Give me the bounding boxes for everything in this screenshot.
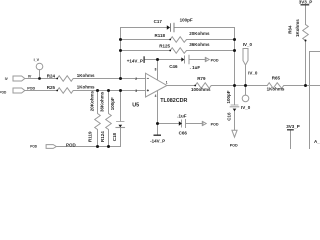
svg-text:R25: R25: [47, 85, 56, 90]
junction node C18 top: [119, 89, 122, 92]
wire IV line with resistor R24: [25, 76, 146, 82]
resistor R64 column: [303, 25, 309, 86]
pin dot R118: [169, 39, 171, 41]
wire +14V_P to pin8: [145, 60, 158, 81]
-14V_P stem: [157, 124, 159, 136]
junction node left bus R118: [119, 38, 122, 41]
svg-text:36Kohms: 36Kohms: [100, 91, 105, 112]
resistor R79: [195, 83, 267, 89]
svg-text:3: 3: [135, 89, 137, 93]
svg-text:R124: R124: [100, 131, 105, 142]
junction node +14V_P rail: [156, 58, 159, 61]
POD tag arrow (C66): [201, 121, 203, 125]
junction node right bus R118: [233, 38, 236, 41]
junction node left bus R125: [119, 49, 122, 52]
wire op-amp output: [167, 85, 195, 87]
wire right feedback bus: [234, 28, 236, 86]
svg-text:TL082CDR: TL082CDR: [160, 98, 187, 104]
resistor R119 column: [95, 91, 101, 147]
svg-text:POD: POD: [0, 91, 7, 95]
3V3_P bottom stem: [290, 131, 292, 150]
capacitor C46 wire and plates: [158, 59, 182, 61]
svg-text:R125: R125: [159, 44, 170, 49]
capacitor C16 polarity arrow: [233, 109, 237, 112]
junction node R124 top: [107, 89, 110, 92]
junction node right bus R125: [233, 49, 236, 52]
svg-text:. 1uF: . 1uF: [190, 65, 201, 70]
svg-text:C16: C16: [227, 112, 232, 121]
svg-text:1Kohms: 1Kohms: [267, 87, 285, 92]
junction node -14V_P rail: [156, 122, 159, 125]
svg-text:A_I: A_I: [314, 139, 320, 144]
POD bottom tag pentagon: [46, 145, 56, 149]
svg-text:IV_0: IV_0: [248, 70, 258, 75]
resistor R65: [267, 83, 320, 89]
svg-text:100pF: 100pF: [226, 90, 231, 103]
svg-text:R65: R65: [272, 75, 281, 80]
svg-text:POD: POD: [211, 122, 219, 126]
block frame corner right: [310, 52, 320, 150]
svg-text:R24: R24: [47, 73, 56, 78]
resistor R125 branch: [121, 48, 235, 54]
svg-text:2: 2: [135, 77, 137, 81]
junction node R64 bottom: [305, 40, 307, 42]
svg-text:20Kohms: 20Kohms: [89, 91, 94, 112]
svg-text:20Kohms: 20Kohms: [189, 31, 210, 36]
wire IV_0 flag stem: [245, 65, 247, 86]
svg-text:1: 1: [166, 80, 168, 84]
svg-text:IV_0: IV_0: [243, 42, 253, 47]
op-amp plus sign: [147, 89, 149, 91]
resistor R118 branch: [121, 37, 235, 43]
svg-text:R118: R118: [155, 33, 166, 38]
svg-text:1Kohms: 1Kohms: [77, 85, 95, 90]
svg-text:I_V: I_V: [34, 58, 40, 62]
svg-text:4: 4: [155, 94, 157, 98]
svg-text:100pF: 100pF: [180, 18, 193, 23]
junction node rail R124: [107, 145, 110, 148]
op-amp U5 triangle: [146, 73, 167, 97]
junction node output C16: [233, 84, 236, 87]
svg-text:-14V_P: -14V_P: [150, 138, 165, 143]
svg-text:.1uF: .1uF: [177, 113, 187, 118]
svg-text:POD: POD: [230, 143, 238, 147]
POD tag arrow (C46): [204, 57, 206, 61]
wire left feedback bus: [120, 28, 122, 79]
capacitor C17 polarity arrow: [167, 25, 170, 30]
svg-text:R119: R119: [88, 131, 93, 142]
svg-text:POD: POD: [211, 59, 219, 63]
svg-text:POD: POD: [30, 145, 38, 149]
svg-text:R64: R64: [288, 25, 293, 34]
svg-text:U5: U5: [132, 102, 139, 108]
capacitor C16 column: [234, 86, 236, 105]
op-amp minus sign: [147, 77, 149, 79]
svg-text:3V3_P: 3V3_P: [286, 124, 300, 129]
junction node IV / I_V: [38, 77, 41, 80]
port circle I_V: [36, 63, 43, 70]
svg-text:POD: POD: [66, 142, 77, 147]
junction node output IV_0: [244, 84, 247, 87]
POD down arrow: [232, 130, 237, 137]
pin dot R25: [56, 90, 58, 92]
svg-text:100pF: 100pF: [110, 97, 115, 110]
wire C17 branch left: [121, 27, 167, 29]
svg-text:+14V_P: +14V_P: [127, 58, 143, 63]
wire POD line with resistor R25: [25, 88, 146, 94]
pin dot R79: [194, 85, 196, 87]
power bar 3V3_P bottom: [287, 129, 294, 131]
capacitor C17 plates: [171, 23, 175, 33]
wire I_V stem: [39, 70, 41, 79]
power bar -14V_P: [154, 134, 162, 136]
pin dot R125: [169, 50, 171, 52]
svg-text:C18: C18: [112, 132, 117, 141]
svg-text:C66: C66: [179, 131, 188, 136]
svg-text:POD: POD: [27, 86, 35, 90]
power bar +14V_P: [143, 56, 145, 63]
svg-text:8: 8: [155, 67, 157, 71]
junction node output R64: [304, 84, 307, 87]
svg-text:3V3_P: 3V3_P: [299, 0, 313, 4]
wire bottom POD rail: [56, 146, 120, 148]
capacitor C46 polarity arrow: [181, 57, 184, 61]
resistor R124 column: [106, 91, 112, 147]
junction node rail R119: [96, 145, 99, 148]
junction node R119 top: [96, 89, 99, 92]
capacitor C18 column: [120, 91, 122, 122]
POD input tag pentagon: [13, 88, 25, 93]
svg-text:36Kohms: 36Kohms: [189, 42, 210, 47]
svg-text:IV: IV: [28, 74, 32, 78]
wire pin4 stub down: [157, 91, 159, 124]
svg-text:C46: C46: [169, 64, 178, 69]
IV input tag pentagon: [13, 76, 25, 81]
svg-text:100ohms: 100ohms: [191, 87, 211, 92]
wire IV_0 circle stem: [245, 86, 247, 96]
svg-text:C17: C17: [154, 19, 163, 24]
power bar 3V3_P top: [301, 4, 310, 6]
wire C17 branch right: [174, 27, 235, 29]
pin dot R24: [56, 78, 58, 80]
svg-text:IV_0: IV_0: [241, 105, 251, 110]
IV_0 flag pentagon: [243, 49, 248, 66]
capacitor C66 wire and plates: [158, 123, 179, 125]
3V3_P top stem: [305, 5, 307, 25]
svg-text:1Kohms: 1Kohms: [77, 73, 95, 78]
capacitor C66 polarity arrow: [179, 121, 182, 125]
svg-text:R79: R79: [197, 76, 206, 81]
capacitor C18 polarity arrow: [119, 125, 123, 128]
port circle IV_0: [242, 95, 249, 102]
svg-text:1Kohms: 1Kohms: [295, 19, 300, 37]
junction node inverting input: [119, 77, 122, 80]
